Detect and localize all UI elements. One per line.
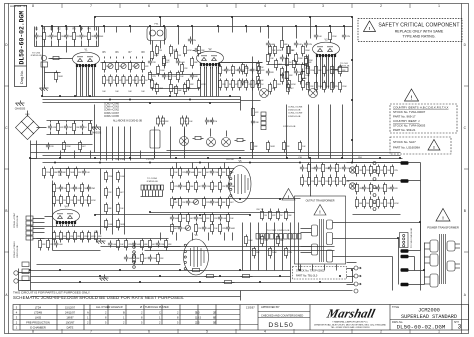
svg-text:1M: 1M — [178, 55, 181, 57]
svg-text:4K7: 4K7 — [198, 186, 201, 188]
svg-text:A: A — [87, 311, 89, 315]
svg-text:4K7: 4K7 — [174, 228, 177, 230]
svg-text:DENBIGH ROAD, BLETCHLEY, MILTO: DENBIGH ROAD, BLETCHLEY, MILTON KEYNES, … — [314, 323, 386, 326]
svg-text:4K7: 4K7 — [290, 88, 293, 90]
svg-text:DL50-60-02.DGM: DL50-60-02.DGM — [397, 323, 446, 330]
svg-text:4K7: 4K7 — [206, 172, 209, 174]
svg-text:100K: 100K — [206, 228, 211, 230]
svg-text:DL50-60-02.DGM: DL50-60-02.DGM — [19, 11, 26, 65]
svg-text:CON6->CON2: CON6->CON2 — [104, 109, 120, 112]
svg-text:Ø: Ø — [214, 311, 216, 315]
svg-text:4K7: 4K7 — [190, 218, 193, 220]
svg-text:2M2: 2M2 — [173, 50, 177, 52]
svg-text:SCHEMATIC JCM2-60-02.DGM SHOUL: SCHEMATIC JCM2-60-02.DGM SHOULD BE USED … — [13, 295, 184, 300]
svg-text:560R: 560R — [270, 146, 275, 148]
svg-text:C12 22N: C12 22N — [146, 159, 154, 161]
svg-text:1M: 1M — [214, 121, 217, 123]
svg-text:PART No. 969-21: PART No. 969-21 — [393, 128, 416, 132]
svg-text:DATE: DATE — [67, 326, 74, 330]
svg-text:220K: 220K — [166, 76, 171, 78]
svg-text:4K7: 4K7 — [166, 62, 169, 64]
svg-text:4K7: 4K7 — [272, 88, 275, 90]
svg-text:560R: 560R — [58, 76, 63, 78]
svg-text:JCM2-61-0B: JCM2-61-0B — [146, 181, 158, 183]
svg-text:100K: 100K — [112, 244, 117, 246]
svg-text:2M2: 2M2 — [277, 84, 281, 86]
svg-text:4: 4 — [264, 4, 266, 8]
svg-text:470K: 470K — [277, 50, 282, 52]
svg-text:1M: 1M — [63, 236, 66, 238]
svg-text:CON6->CON7: CON6->CON7 — [104, 112, 120, 115]
svg-text:Dwg.No.: Dwg.No. — [20, 70, 24, 84]
svg-text:220K: 220K — [152, 258, 157, 260]
svg-text:1: 1 — [438, 4, 440, 8]
svg-text:100K: 100K — [298, 58, 303, 60]
svg-text:TYPE AND RATING.: TYPE AND RATING. — [402, 35, 435, 39]
svg-text:B: B — [123, 311, 125, 315]
svg-text:3: 3 — [322, 4, 324, 8]
svg-text:1/8/97: 1/8/97 — [66, 316, 74, 320]
svg-text:220K: 220K — [84, 236, 89, 238]
svg-text:470K: 470K — [77, 188, 82, 190]
svg-text:CON13->CON10: CON13->CON10 — [13, 241, 16, 258]
svg-text:19/3/97: 19/3/97 — [66, 321, 75, 325]
svg-text:560R: 560R — [214, 202, 219, 204]
svg-text:4K7: 4K7 — [82, 146, 85, 148]
svg-text:continued...4.3: continued...4.3 — [10, 4, 28, 8]
svg-text:15/12/97: 15/12/97 — [65, 306, 76, 310]
svg-text:1M: 1M — [63, 200, 66, 202]
svg-text:E-CHAMBER: E-CHAMBER — [30, 326, 46, 330]
svg-text:JCM2-61-0B: JCM2-61-0B — [288, 116, 301, 118]
svg-text:220K: 220K — [387, 203, 392, 205]
svg-text:PART No. LS16009A: PART No. LS16009A — [393, 146, 420, 150]
svg-text:CON2->CON8: CON2->CON8 — [288, 106, 303, 109]
svg-text:B: B — [5, 209, 7, 213]
svg-text:CHASSIS: CHASSIS — [15, 107, 26, 110]
svg-text:560R: 560R — [182, 186, 187, 188]
svg-text:R31 10K: R31 10K — [226, 159, 234, 161]
svg-text:STOCK No. TVFA-00007: STOCK No. TVFA-00007 — [393, 110, 426, 114]
svg-text:ALL ABOVE IN JCM2-61-0B: ALL ABOVE IN JCM2-61-0B — [113, 120, 142, 123]
svg-text:560R: 560R — [136, 244, 141, 246]
svg-text:R47 1K: R47 1K — [257, 209, 264, 211]
svg-text:220K: 220K — [332, 168, 337, 170]
svg-text:100K: 100K — [272, 252, 277, 254]
svg-text:390K: 390K — [99, 36, 104, 38]
svg-text:C: C — [159, 311, 161, 315]
svg-text:4K7: 4K7 — [230, 202, 233, 204]
svg-text:13/3/97: 13/3/97 — [246, 306, 255, 310]
svg-text:LTD4B: LTD4B — [34, 311, 42, 315]
svg-text:2M2: 2M2 — [91, 188, 95, 190]
svg-text:2.5: 2.5 — [196, 321, 200, 325]
svg-text:220K: 220K — [342, 86, 347, 88]
svg-text:6: 6 — [148, 4, 150, 8]
svg-text:DSL50: DSL50 — [268, 322, 293, 329]
svg-text:CON2->CON6: CON2->CON6 — [104, 103, 120, 106]
svg-text:220K: 220K — [214, 172, 219, 174]
svg-text:POWER TRANSFORMER: POWER TRANSFORMER — [427, 226, 459, 230]
svg-text:2M2: 2M2 — [245, 68, 249, 70]
svg-text:CON6->CON3: CON6->CON3 — [104, 106, 120, 109]
svg-text:JCM2-61-0B: JCM2-61-0B — [30, 55, 42, 57]
svg-text:8: 8 — [32, 4, 34, 8]
svg-text:STOCK No. TVFA-00003: STOCK No. TVFA-00003 — [393, 124, 426, 128]
svg-text:220K: 220K — [198, 218, 203, 220]
svg-text:470K: 470K — [91, 236, 96, 238]
svg-text:TEL: 01908 375411 FAX: 01908: TEL: 01908 375411 FAX: 01908 376118 — [331, 326, 371, 329]
svg-text:10.5: 10.5 — [196, 316, 202, 320]
svg-text:2M2: 2M2 — [68, 127, 72, 129]
svg-text:TITLE: TITLE — [392, 305, 399, 309]
svg-text:470P: 470P — [154, 55, 159, 57]
svg-text:2M2: 2M2 — [91, 36, 95, 38]
svg-text:560R: 560R — [120, 224, 125, 226]
svg-text:470K: 470K — [187, 50, 192, 52]
svg-text:220K: 220K — [108, 176, 113, 178]
svg-text:560R: 560R — [230, 228, 235, 230]
svg-text:4K7: 4K7 — [152, 244, 155, 246]
svg-text:ALL OTHER HOLES Ø: ALL OTHER HOLES Ø — [96, 305, 123, 309]
svg-text:100K: 100K — [222, 218, 227, 220]
svg-text:R22 470K: R22 470K — [116, 159, 126, 161]
svg-text:24/11/97: 24/11/97 — [65, 311, 75, 315]
svg-text:220K: 220K — [84, 200, 89, 202]
svg-text:100K: 100K — [120, 176, 125, 178]
svg-text:CON11->CON7: CON11->CON7 — [13, 212, 16, 228]
svg-text:!: ! — [319, 210, 320, 215]
svg-text:PRE-PRODUCTION: PRE-PRODUCTION — [26, 321, 50, 325]
svg-text:100K: 100K — [305, 75, 310, 77]
svg-text:1M: 1M — [366, 203, 369, 205]
svg-text:TO CH3 JCM2-61-0B: TO CH3 JCM2-61-0B — [411, 228, 413, 248]
svg-text:220K: 220K — [366, 170, 371, 172]
svg-text:TO CH4: TO CH4 — [32, 53, 41, 55]
svg-text:470K: 470K — [291, 84, 296, 86]
svg-text:560R: 560R — [128, 258, 133, 260]
svg-text:470K: 470K — [201, 84, 206, 86]
svg-text:470K: 470K — [91, 200, 96, 202]
svg-text:100K: 100K — [108, 224, 113, 226]
svg-text:100K: 100K — [248, 240, 253, 242]
svg-text:100K: 100K — [180, 62, 185, 64]
svg-text:560R: 560R — [174, 218, 179, 220]
svg-text:470K: 470K — [394, 203, 399, 205]
svg-text:OUTPUT TRANSFORMER: OUTPUT TRANSFORMER — [306, 200, 335, 203]
svg-text:1M: 1M — [264, 215, 267, 217]
svg-text:470K: 470K — [173, 88, 178, 90]
svg-text:CHECKED AND COUNTERSIGNED: CHECKED AND COUNTERSIGNED — [261, 314, 303, 318]
svg-text:CON6->CON5: CON6->CON5 — [104, 115, 120, 118]
svg-text:470K: 470K — [332, 181, 337, 183]
svg-text:B: B — [464, 209, 466, 213]
svg-text:560R: 560R — [366, 188, 371, 190]
svg-text:220K: 220K — [206, 186, 211, 188]
svg-text:220K: 220K — [160, 244, 165, 246]
svg-text:560R: 560R — [190, 172, 195, 174]
svg-text:4K7: 4K7 — [120, 192, 123, 194]
svg-text:2: 2 — [380, 4, 382, 8]
svg-text:2M2: 2M2 — [69, 36, 73, 38]
svg-text:LH05: LH05 — [35, 316, 42, 320]
svg-text:4K7: 4K7 — [278, 64, 281, 66]
svg-text:1M: 1M — [159, 50, 162, 52]
svg-text:Marshall: Marshall — [325, 307, 377, 321]
svg-text:JCM2-61-0B: JCM2-61-0B — [17, 215, 19, 228]
svg-text:100K: 100K — [270, 44, 275, 46]
svg-text:TO CON1 JCM2-61-0B: TO CON1 JCM2-61-0B — [267, 230, 290, 232]
svg-text:COUNTRY IDENTS: A,B,C,D,E,K,P,: COUNTRY IDENTS: A,B,C,D,E,K,P,S,T,V,X — [393, 106, 449, 110]
svg-text:STOCK No. SL07: STOCK No. SL07 — [393, 140, 416, 144]
svg-text:220K: 220K — [66, 146, 71, 148]
svg-text:1M: 1M — [184, 121, 187, 123]
svg-text:220K: 220K — [325, 181, 330, 183]
svg-text:TO CON4: TO CON4 — [147, 178, 157, 180]
svg-text:390K: 390K — [305, 68, 310, 70]
svg-text:5: 5 — [206, 4, 208, 8]
svg-text:© MARSHALL AMPLIFICATION PLC: © MARSHALL AMPLIFICATION PLC — [332, 321, 368, 324]
svg-text:7: 7 — [90, 4, 92, 8]
svg-text:390K: 390K — [305, 50, 310, 52]
svg-text:470P: 470P — [52, 127, 57, 129]
svg-text:JCM2-61-0B: JCM2-61-0B — [288, 110, 301, 112]
svg-text:3: 3 — [458, 324, 462, 331]
svg-text:LTD4: LTD4 — [35, 306, 42, 310]
svg-text:4K7: 4K7 — [296, 64, 299, 66]
svg-text:CHASSIS: CHASSIS — [91, 131, 102, 134]
svg-text:Ø: Ø — [214, 316, 216, 320]
svg-text:4K7: 4K7 — [144, 258, 147, 260]
svg-text:COUNTRY IDENT: J: COUNTRY IDENT: J — [393, 119, 420, 123]
svg-text:JCM2000: JCM2000 — [418, 308, 440, 314]
svg-text:1M: 1M — [304, 181, 307, 183]
svg-text:2M2: 2M2 — [159, 88, 163, 90]
svg-text:SUPERLEAD STANDARD: SUPERLEAD STANDARD — [401, 314, 457, 320]
svg-text:4K7: 4K7 — [326, 70, 329, 72]
svg-text:SAFETY CRITICAL COMPONENT: SAFETY CRITICAL COMPONENT — [378, 23, 459, 29]
svg-text:Ø: Ø — [214, 321, 216, 325]
svg-text:CON2->CON9: CON2->CON9 — [288, 112, 303, 115]
svg-text:220K: 220K — [332, 36, 337, 38]
svg-text:Ø = THROUGH PLATED: Ø = THROUGH PLATED — [140, 305, 169, 309]
svg-text:5.0: 5.0 — [196, 311, 200, 315]
svg-text:PART No. TBL-3L0: PART No. TBL-3L0 — [296, 275, 318, 278]
svg-text:THIS CIRCUIT IS FOR PARTS LIST: THIS CIRCUIT IS FOR PARTS LIST PURPOSES … — [13, 291, 91, 295]
svg-text:100K: 100K — [160, 70, 165, 72]
svg-text:PART No. 969-17: PART No. 969-17 — [393, 115, 416, 119]
svg-text:JCM2-61-0B: JCM2-61-0B — [283, 126, 296, 128]
svg-text:REPLACE ONLY WITH SAME: REPLACE ONLY WITH SAME — [395, 30, 444, 34]
svg-text:JCM2-61-0B: JCM2-61-0B — [17, 245, 19, 258]
svg-text:100K: 100K — [58, 244, 63, 246]
svg-text:APPROVED BY: APPROVED BY — [261, 305, 280, 309]
